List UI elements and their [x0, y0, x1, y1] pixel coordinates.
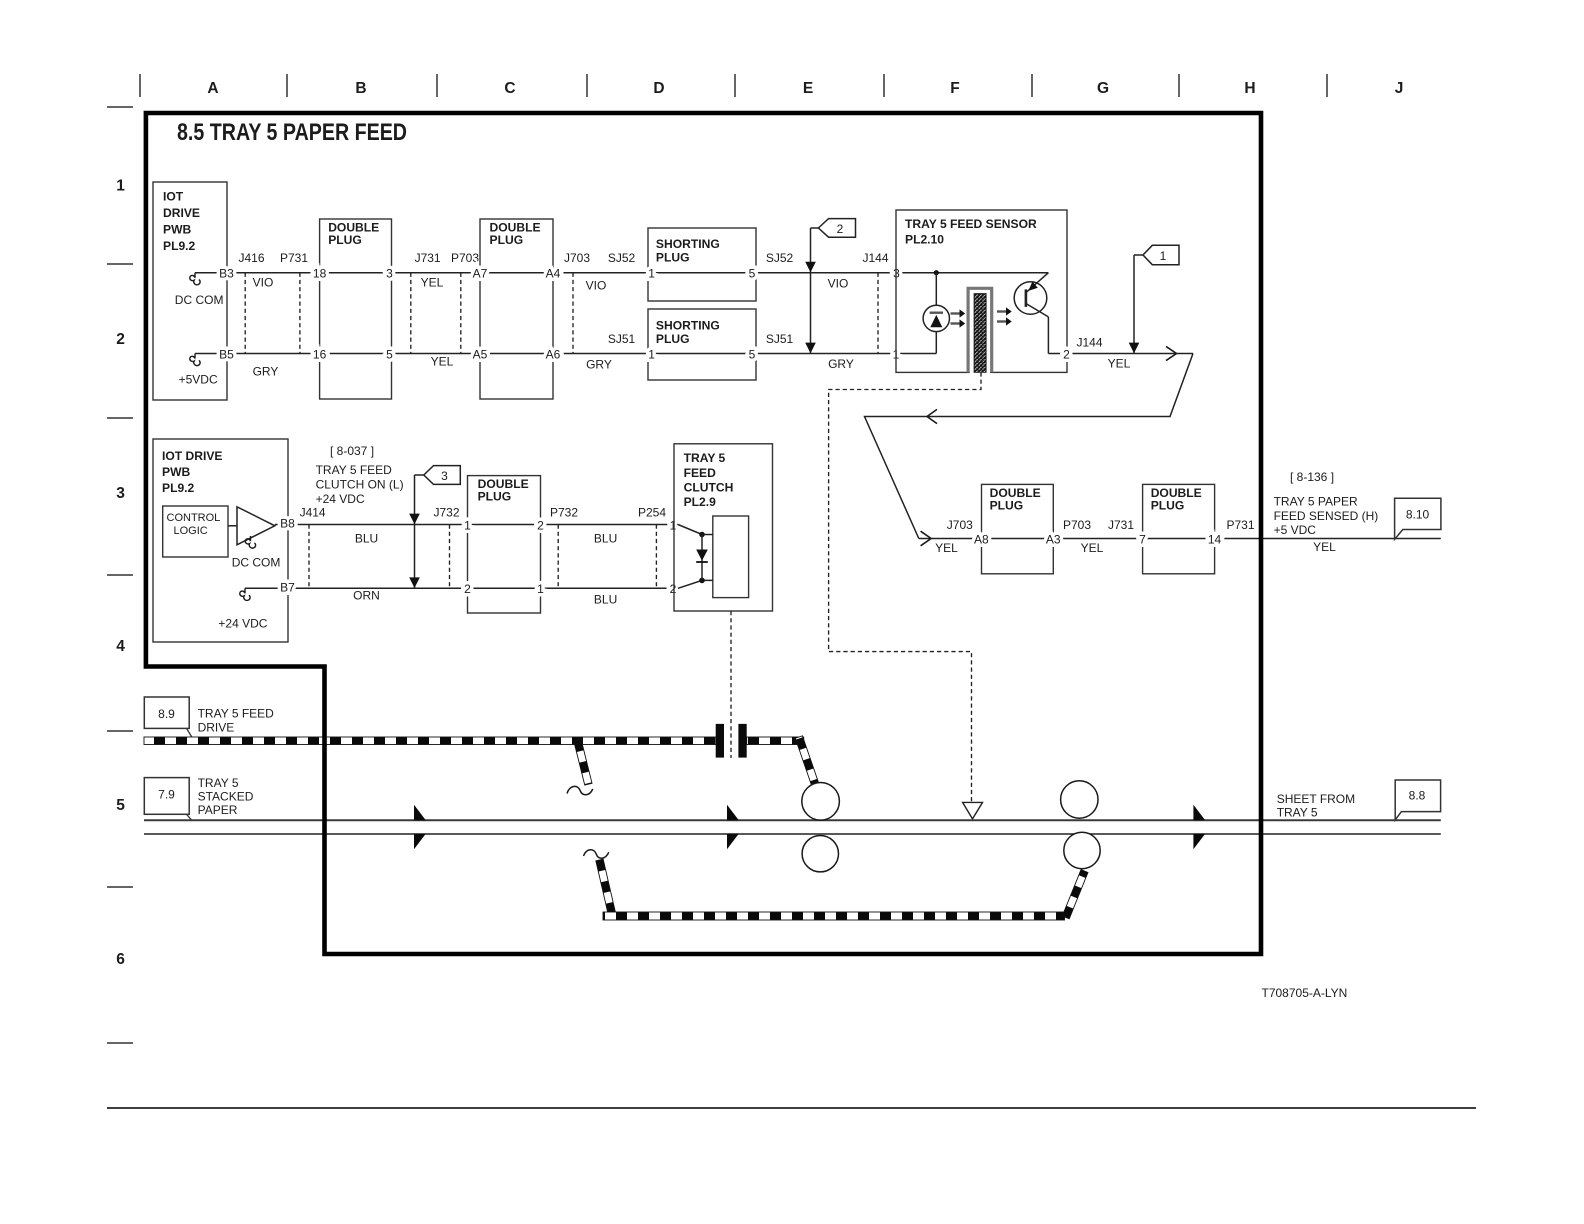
wire: TRAY 5 FEED CLUTCH ON net B8 (BLU) — [275, 524, 678, 526]
feedback wire zigzag — [865, 354, 1194, 539]
svg-text:YEL: YEL — [935, 541, 958, 555]
callout 8.9 text — [198, 707, 275, 735]
svg-text:7: 7 — [1139, 532, 1146, 546]
connector dashed line J416 — [244, 273, 246, 354]
svg-text:BLU: BLU — [594, 532, 617, 546]
svg-text:J414: J414 — [300, 506, 326, 520]
svg-text:P703: P703 — [1063, 518, 1091, 532]
chevron left on feedback — [927, 409, 937, 423]
connector dashed line P731 — [299, 273, 301, 354]
svg-text:GRY: GRY — [586, 358, 612, 372]
svg-text:VIO: VIO — [828, 277, 849, 291]
grid column letters — [207, 80, 1403, 97]
svg-text:5: 5 — [749, 267, 756, 281]
svg-text:CONTROL: CONTROL — [167, 512, 221, 524]
svg-text:STACKED: STACKED — [198, 790, 254, 804]
svg-text:TRAY 5: TRAY 5 — [198, 776, 239, 790]
double plug (J731/P731) lower — [1143, 484, 1215, 573]
svg-text:J144: J144 — [862, 251, 888, 265]
svg-text:2: 2 — [1063, 348, 1070, 362]
clutch coil — [713, 516, 749, 598]
svg-text:18: 18 — [313, 267, 327, 281]
svg-text:16: 16 — [313, 347, 327, 361]
mech link from belt (upper) — [574, 740, 592, 785]
TRAY 5 FEED SENSOR PL2.10 — [896, 210, 1067, 372]
svg-text:PLUG: PLUG — [656, 251, 690, 265]
svg-text:2: 2 — [464, 582, 471, 596]
svg-text:6: 6 — [116, 951, 125, 968]
IOT DRIVE PWB PL9.2 (lower) — [153, 439, 288, 642]
svg-text:P732: P732 — [550, 506, 578, 520]
svg-text:SJ51: SJ51 — [608, 332, 636, 346]
svg-text:YEL: YEL — [1081, 541, 1104, 555]
svg-text:B3: B3 — [219, 267, 234, 281]
wire pin1 to coil — [678, 525, 713, 535]
flag 3 pointer — [409, 466, 460, 589]
phototransistor Q1 — [1014, 273, 1048, 354]
svg-text:5: 5 — [749, 347, 756, 361]
connector dashed line P703 — [460, 273, 462, 354]
IOT DRIVE PWB PL9.2 (upper) — [153, 182, 227, 400]
driver buffer U1 — [228, 525, 237, 527]
svg-text:P254: P254 — [638, 506, 666, 520]
svg-text:5: 5 — [116, 797, 125, 814]
svg-text:CLUTCH ON (L): CLUTCH ON (L) — [316, 478, 404, 492]
signal name text right — [1274, 495, 1379, 538]
svg-text:PLUG: PLUG — [656, 332, 690, 346]
feed roll lower (left pair) — [802, 836, 838, 872]
svg-text:A5: A5 — [473, 347, 488, 361]
shorting plug SJ52 — [648, 228, 756, 301]
svg-text:SHORTING: SHORTING — [656, 237, 720, 251]
svg-text:D: D — [653, 80, 664, 97]
mechanical dashed link clutch to coupling — [730, 611, 732, 758]
svg-text:J144: J144 — [1076, 336, 1102, 350]
svg-text:A7: A7 — [473, 267, 488, 281]
svg-text:SJ51: SJ51 — [766, 332, 794, 346]
svg-text:J703: J703 — [947, 518, 973, 532]
svg-text:PL2.9: PL2.9 — [684, 495, 717, 509]
wire color labels yel row — [935, 540, 1336, 555]
svg-text:2: 2 — [537, 518, 544, 532]
svg-text:PLUG: PLUG — [1151, 499, 1185, 513]
takeaway roll upper (right pair) — [1061, 781, 1098, 818]
svg-text:8.9: 8.9 — [158, 707, 175, 721]
svg-text:2: 2 — [837, 222, 844, 236]
connector labels row3 — [300, 506, 667, 520]
svg-text:TRAY 5: TRAY 5 — [1277, 806, 1318, 820]
control logic block — [163, 506, 228, 557]
connector dashed line J144 — [877, 273, 879, 354]
svg-text:TRAY 5: TRAY 5 — [684, 451, 726, 465]
paper direction half-arrow 2 upper — [727, 805, 739, 821]
svg-text:GRY: GRY — [828, 357, 854, 371]
svg-text:A: A — [207, 80, 218, 97]
svg-text:J731: J731 — [1108, 518, 1134, 532]
paper direction half-arrow 1 upper — [414, 805, 426, 821]
svg-text:BLU: BLU — [355, 532, 378, 546]
svg-text:PLUG: PLUG — [990, 499, 1024, 513]
svg-text:J732: J732 — [433, 506, 459, 520]
paper path upper line — [144, 819, 1441, 821]
svg-text:+24 VDC: +24 VDC — [316, 492, 365, 506]
svg-text:PLUG: PLUG — [328, 233, 362, 247]
sensor slot wall — [970, 288, 990, 374]
svg-text:SJ52: SJ52 — [608, 251, 636, 265]
svg-text:B5: B5 — [219, 347, 234, 361]
connector dashed line J731 — [410, 273, 412, 354]
mech link hook (upper) — [567, 786, 593, 794]
wire LED anode drop — [935, 273, 937, 306]
interconnect squiggle at B7 — [240, 588, 250, 600]
svg-text:FEED: FEED — [684, 466, 717, 480]
svg-text:TRAY 5 FEED SENSOR: TRAY 5 FEED SENSOR — [905, 217, 1037, 231]
svg-text:YEL: YEL — [431, 355, 454, 369]
svg-text:1: 1 — [116, 178, 125, 195]
off-page callout 8.8 — [1395, 780, 1440, 820]
grid row tick marks — [107, 107, 133, 1043]
flag 1 pointer — [1129, 245, 1179, 353]
svg-text:+5VDC: +5VDC — [179, 373, 218, 387]
connector labels row1 — [238, 251, 888, 346]
shorting plug SJ51 — [648, 309, 756, 380]
svg-text:G: G — [1097, 80, 1109, 97]
svg-text:YEL: YEL — [1313, 540, 1336, 554]
double plug C (P703-J703) — [480, 219, 553, 399]
svg-text:CLUTCH: CLUTCH — [684, 481, 734, 495]
svg-text:SJ52: SJ52 — [766, 251, 794, 265]
connector dashed line P732 — [557, 525, 559, 589]
takeaway roll lower (right pair) — [1064, 832, 1100, 868]
svg-text:DC COM: DC COM — [232, 556, 281, 570]
svg-text:J: J — [1395, 80, 1404, 97]
node dot upper — [699, 532, 705, 538]
svg-text:4: 4 — [116, 638, 125, 655]
svg-text:TRAY 5 PAPER: TRAY 5 PAPER — [1274, 495, 1358, 509]
svg-text:1: 1 — [537, 582, 544, 596]
svg-text:3: 3 — [386, 267, 393, 281]
svg-text:A6: A6 — [546, 347, 561, 361]
paper direction half-arrow 3 lower — [1193, 834, 1205, 850]
double plug (J703/P703) lower — [982, 484, 1054, 573]
callout 8.9 — [144, 697, 192, 737]
svg-text:F: F — [950, 80, 959, 97]
svg-text:PL2.10: PL2.10 — [905, 233, 944, 247]
svg-text:TRAY 5 FEED: TRAY 5 FEED — [316, 463, 393, 477]
svg-text:PL9.2: PL9.2 — [162, 481, 195, 495]
pin labels yel row — [974, 532, 1222, 546]
main BSD border — [146, 113, 1261, 954]
svg-text:PWB: PWB — [162, 465, 190, 479]
svg-text:C: C — [504, 80, 515, 97]
svg-text:VIO: VIO — [253, 276, 274, 290]
svg-text:P731: P731 — [280, 251, 308, 265]
paper direction half-arrow 1 lower — [414, 834, 426, 850]
callout 7.9 — [144, 778, 192, 821]
mech link hook (lower) — [584, 850, 609, 858]
drive belt diagonal to feed roll — [795, 736, 819, 787]
flag 2 pointer — [805, 219, 855, 354]
pin labels row4 wire — [280, 581, 677, 597]
svg-text:J703: J703 — [564, 251, 590, 265]
grid row numbers — [116, 178, 125, 969]
svg-text:J731: J731 — [415, 251, 441, 265]
svg-text:8.5 TRAY 5 PAPER FEED: 8.5 TRAY 5 PAPER FEED — [177, 119, 407, 146]
svg-text:B: B — [355, 80, 366, 97]
mech link from hook to lower belt — [596, 859, 615, 913]
node junction dot on pin3 net — [934, 270, 939, 275]
svg-text:7.9: 7.9 — [158, 788, 175, 802]
actuator flag (hatched) — [974, 294, 986, 373]
actuator pointer triangle — [963, 802, 983, 819]
coupling bar right — [738, 724, 746, 758]
svg-text:LOGIC: LOGIC — [174, 525, 208, 537]
svg-text:VIO: VIO — [586, 279, 607, 293]
drive belt right of coupling — [747, 737, 804, 745]
svg-text:+24 VDC: +24 VDC — [218, 617, 267, 631]
wire pin2 to coil — [678, 580, 713, 588]
svg-text:5: 5 — [386, 347, 393, 361]
connector dashed line J414 — [308, 525, 310, 589]
svg-text:GRY: GRY — [253, 365, 279, 379]
svg-text:SHORTING: SHORTING — [656, 319, 720, 333]
flyback diode CR1 — [701, 535, 703, 581]
svg-text:BLU: BLU — [594, 593, 617, 607]
chevron on YEL wire — [1166, 346, 1177, 360]
wire color labels row3/4 — [353, 532, 617, 607]
bottom margin rule — [107, 1107, 1476, 1109]
double plug (J732/P732) — [468, 476, 541, 613]
connector labels yel row — [947, 518, 1255, 532]
feed roll upper (left pair) — [802, 783, 840, 821]
svg-text:[ 8-136 ]: [ 8-136 ] — [1290, 470, 1334, 484]
drive belt left run — [144, 737, 716, 745]
node dot lower — [699, 578, 705, 584]
connector dashed line J703 — [572, 273, 574, 354]
svg-text:ORN: ORN — [353, 589, 380, 603]
svg-text:IOT: IOT — [163, 190, 184, 204]
svg-text:E: E — [803, 80, 813, 97]
off-page callout 8.10 — [1395, 498, 1441, 539]
svg-text:SHEET FROM: SHEET FROM — [1277, 792, 1355, 806]
lower belt diagonal to retard roll — [1062, 870, 1088, 919]
dashed sensing path from actuator flag — [829, 372, 981, 801]
svg-text:8.10: 8.10 — [1406, 508, 1430, 522]
svg-text:+5 VDC: +5 VDC — [1274, 523, 1317, 537]
wire: DC COM net B3-18-3-A7-A4-1-5-3 (VIO) — [195, 272, 1048, 274]
svg-text:PLUG: PLUG — [478, 490, 512, 504]
svg-text:YEL: YEL — [421, 276, 444, 290]
chevron right at A8 branch — [921, 531, 932, 546]
svg-text:2: 2 — [116, 331, 125, 348]
wire color labels rows 1-2 — [253, 276, 854, 379]
pin labels row3 wire — [280, 517, 677, 533]
svg-text:A4: A4 — [546, 267, 561, 281]
svg-text:PL9.2: PL9.2 — [163, 239, 196, 253]
svg-text:8.8: 8.8 — [1409, 789, 1426, 803]
svg-text:T708705-A-LYN: T708705-A-LYN — [1262, 986, 1348, 1000]
wire: TRAY 5 PAPER FEED SENSED net (YEL) — [919, 538, 1441, 540]
svg-text:PWB: PWB — [163, 223, 191, 237]
pin labels row2 wire — [219, 347, 900, 361]
lower belt run — [603, 912, 1065, 920]
svg-text:PAPER: PAPER — [198, 803, 238, 817]
svg-text:3: 3 — [116, 485, 125, 502]
svg-text:DC COM: DC COM — [175, 293, 224, 307]
svg-text:1: 1 — [648, 267, 655, 281]
svg-text:14: 14 — [1208, 532, 1222, 546]
paper path lower line — [144, 833, 1441, 835]
LED D1 — [923, 305, 949, 331]
interconnect squiggle at buffer — [245, 536, 255, 548]
paper direction half-arrow 2 lower — [727, 834, 739, 850]
svg-text:P731: P731 — [1226, 518, 1254, 532]
connector dashed line P254 — [655, 525, 657, 589]
svg-text:3: 3 — [441, 469, 448, 483]
wire LED cathode drop — [935, 332, 937, 354]
double plug B (J416/P731-J731) — [320, 219, 392, 399]
interconnect squiggle at B5 — [190, 354, 200, 366]
interconnect squiggle at B3 — [190, 273, 200, 285]
svg-text:1: 1 — [464, 518, 471, 532]
svg-text:B7: B7 — [280, 581, 295, 595]
light arrows LED to slot — [951, 309, 966, 327]
sheet exit text — [1277, 792, 1355, 820]
svg-text:DRIVE: DRIVE — [198, 721, 235, 735]
grid column tick marks — [140, 74, 1327, 97]
signal name text — [316, 463, 404, 506]
svg-text:A3: A3 — [1046, 532, 1061, 546]
coupling bar left — [716, 724, 724, 758]
light arrows slot to phototransistor — [997, 307, 1012, 325]
paper direction half-arrow 3 upper — [1193, 805, 1205, 821]
svg-text:IOT DRIVE: IOT DRIVE — [162, 449, 222, 463]
svg-text:DRIVE: DRIVE — [163, 206, 200, 220]
svg-text:A8: A8 — [974, 532, 989, 546]
svg-text:YEL: YEL — [1108, 357, 1131, 371]
wire: +24VDC return net B7 (ORN) — [245, 587, 678, 589]
svg-text:TRAY 5 FEED: TRAY 5 FEED — [198, 707, 275, 721]
svg-text:H: H — [1244, 80, 1255, 97]
wire: +5VDC net B5-16-5-A5-A6-1-5-1 (GRY) — [195, 353, 936, 355]
svg-text:[ 8-037 ]: [ 8-037 ] — [330, 444, 374, 458]
callout 7.9 text — [198, 776, 254, 817]
svg-text:B8: B8 — [280, 517, 295, 531]
pin labels row1 wire — [219, 267, 900, 281]
svg-text:FEED SENSED (H): FEED SENSED (H) — [1274, 509, 1379, 523]
TRAY 5 FEED CLUTCH PL2.9 — [674, 444, 773, 611]
svg-text:J416: J416 — [238, 251, 264, 265]
svg-text:PLUG: PLUG — [490, 233, 524, 247]
connector dashed line J732 — [449, 525, 451, 589]
wire sensor pin2 to corner (YEL) — [1048, 353, 1193, 355]
svg-text:1: 1 — [648, 347, 655, 361]
svg-text:P703: P703 — [451, 251, 479, 265]
svg-text:2: 2 — [670, 582, 677, 596]
svg-text:1: 1 — [670, 518, 677, 532]
svg-text:1: 1 — [1160, 249, 1167, 263]
